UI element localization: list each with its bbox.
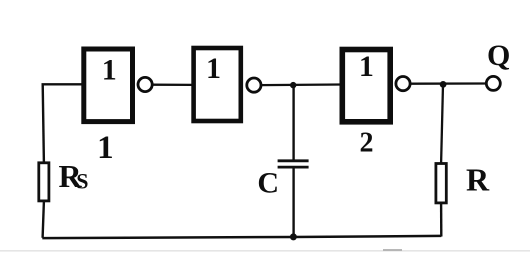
svg-text:1: 1 [97, 130, 114, 166]
svg-text:2: 2 [360, 127, 374, 158]
wire capacitor lower [292, 167, 294, 237]
resistor R [436, 162, 490, 203]
svg-text:Q: Q [487, 39, 510, 72]
scan artifact faint rule [0, 250, 530, 252]
wire right vertical lower [440, 203, 443, 237]
wire left vertical lower [43, 202, 44, 238]
svg-text:R: R [466, 162, 490, 198]
wire right vertical upper [441, 84, 443, 163]
wire capacitor upper [292, 85, 294, 161]
svg-text:1: 1 [359, 50, 374, 83]
capacitor C [257, 161, 308, 200]
wire gate3 to output [410, 82, 486, 84]
wire gate1 to gate2 [152, 84, 192, 87]
wire gate2 to gate3 [261, 83, 342, 86]
wire left vertical upper [43, 84, 44, 162]
inverter gate 3 [342, 50, 410, 122]
svg-text:1: 1 [102, 53, 117, 86]
svg-text:S: S [76, 169, 88, 194]
junction node to R [440, 81, 447, 88]
inverter gate 1 [84, 49, 152, 122]
inverter gate 2 [194, 48, 261, 121]
svg-text:1: 1 [206, 52, 221, 85]
svg-text:C: C [257, 166, 279, 199]
wire input to gate 1 [42, 83, 84, 85]
terminal Q [486, 39, 510, 91]
resistor RS [39, 158, 89, 201]
wire bottom rail [42, 236, 441, 238]
scan artifact dark dash [383, 249, 402, 251]
junction bottom node [290, 233, 297, 240]
junction node to capacitor [290, 82, 296, 88]
